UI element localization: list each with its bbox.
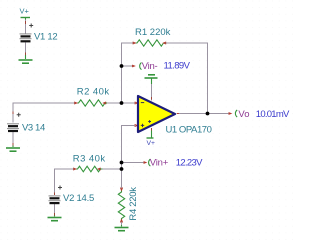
svg-text:R1 220k: R1 220k bbox=[135, 27, 171, 38]
svg-text:V1 12: V1 12 bbox=[34, 31, 57, 42]
svg-text:V+: V+ bbox=[20, 7, 30, 16]
svg-text:Vin-: Vin- bbox=[142, 61, 158, 72]
svg-text:Vo: Vo bbox=[238, 109, 249, 120]
svg-text:V2 14.5: V2 14.5 bbox=[63, 193, 94, 204]
svg-text:R4 220k: R4 220k bbox=[128, 187, 139, 221]
svg-text:V+: V+ bbox=[147, 140, 156, 147]
svg-text:R2 40k: R2 40k bbox=[77, 86, 110, 97]
svg-text:12.23V: 12.23V bbox=[176, 157, 203, 168]
svg-text:11.89V: 11.89V bbox=[164, 61, 191, 72]
svg-text:R3 40k: R3 40k bbox=[73, 154, 106, 165]
svg-text:10.01mV: 10.01mV bbox=[256, 109, 290, 120]
svg-text:Vin+: Vin+ bbox=[150, 157, 169, 168]
svg-text:U1 OPA170: U1 OPA170 bbox=[166, 125, 212, 136]
svg-text:V3 14: V3 14 bbox=[22, 123, 45, 134]
